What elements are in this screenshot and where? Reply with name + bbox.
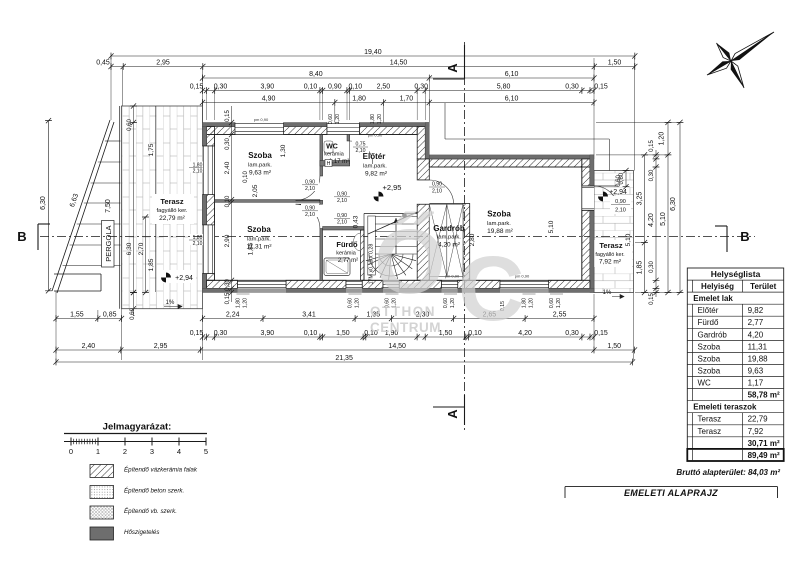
svg-text:1,80: 1,80 bbox=[352, 96, 366, 103]
svg-text:Szoba: Szoba bbox=[698, 354, 721, 363]
svg-text:0,30: 0,30 bbox=[414, 84, 428, 91]
svg-text:0,15: 0,15 bbox=[649, 293, 655, 305]
svg-text:0,30: 0,30 bbox=[225, 279, 231, 291]
svg-text:9,63: 9,63 bbox=[748, 367, 764, 376]
svg-text:1,80: 1,80 bbox=[236, 298, 242, 308]
svg-text:kerámia: kerámia bbox=[324, 152, 345, 158]
svg-text:lam.park.: lam.park. bbox=[487, 221, 511, 227]
svg-text:7,92 m²: 7,92 m² bbox=[599, 259, 622, 266]
svg-text:WC: WC bbox=[326, 144, 338, 151]
dim 6,30 left outer column bbox=[48, 121, 50, 291]
svg-text:19,88 m²: 19,88 m² bbox=[487, 228, 513, 235]
pergola base bbox=[54, 273, 101, 275]
dim row 2,24 3,41 1,35 2,30 2,65 2,55 bbox=[203, 318, 595, 320]
svg-text:1,20: 1,20 bbox=[450, 298, 456, 308]
pergola bbox=[52, 120, 110, 291]
svg-text:Szoba: Szoba bbox=[698, 367, 721, 376]
terrace interior dim lines bbox=[133, 106, 135, 292]
svg-text:CENTRUM: CENTRUM bbox=[370, 320, 441, 335]
extension lines from top dims bbox=[110, 58, 112, 120]
right dim column 6,30 bbox=[679, 122, 681, 292]
label Terasz 22,79 bbox=[152, 194, 194, 224]
svg-text:0,10: 0,10 bbox=[243, 171, 249, 183]
svg-text:3,25: 3,25 bbox=[637, 192, 644, 206]
svg-text:0,43: 0,43 bbox=[353, 215, 360, 228]
svg-text:0,15: 0,15 bbox=[225, 110, 231, 122]
stair treads bbox=[375, 216, 417, 218]
corridor wall x=320 bbox=[320, 135, 323, 177]
svg-text:2,55: 2,55 bbox=[553, 312, 567, 319]
svg-text:9,63 m²: 9,63 m² bbox=[249, 170, 272, 177]
svg-text:6,30: 6,30 bbox=[40, 196, 47, 210]
exterior wall top, left section bbox=[207, 127, 235, 135]
svg-text:2,10: 2,10 bbox=[615, 208, 626, 214]
svg-text:0,15: 0,15 bbox=[649, 140, 655, 152]
right dim extension lines bbox=[596, 121, 680, 123]
svg-text:1,80: 1,80 bbox=[370, 114, 376, 124]
room list table Helységlista bbox=[687, 268, 783, 461]
svg-text:B: B bbox=[17, 229, 26, 244]
window bottom wall 0,60 bbox=[346, 280, 362, 288]
svg-text:0,15: 0,15 bbox=[190, 84, 204, 91]
roof overhang outline bbox=[444, 103, 446, 139]
svg-text:2,24: 2,24 bbox=[226, 312, 240, 319]
svg-text:1,75: 1,75 bbox=[148, 143, 155, 156]
svg-text:1%: 1% bbox=[603, 290, 612, 296]
wardrobe X Gardrób bbox=[429, 204, 447, 276]
svg-text:5,10: 5,10 bbox=[660, 212, 667, 226]
svg-text:2,10: 2,10 bbox=[432, 189, 442, 195]
staircase bbox=[364, 213, 417, 215]
svg-text:6,10: 6,10 bbox=[505, 71, 519, 78]
svg-text:0,15: 0,15 bbox=[594, 84, 608, 91]
svg-text:Terület: Terület bbox=[750, 282, 776, 291]
svg-text:fagyálló ker.: fagyálló ker. bbox=[157, 208, 188, 214]
svg-text:22,79 m²: 22,79 m² bbox=[159, 215, 185, 222]
svg-text:1,20: 1,20 bbox=[529, 298, 535, 308]
svg-text:Szoba: Szoba bbox=[247, 225, 271, 234]
svg-text:19,40: 19,40 bbox=[364, 49, 382, 56]
svg-text:EMELETI ALAPRAJZ: EMELETI ALAPRAJZ bbox=[624, 488, 718, 498]
legend swatch vázkerámia bbox=[90, 465, 114, 478]
washbasin Fürdő bbox=[354, 233, 361, 251]
svg-text:pm 0,90: pm 0,90 bbox=[254, 117, 269, 122]
door labels 0,90/2,10 szoba doors bbox=[301, 178, 319, 191]
section line B-B bbox=[40, 236, 755, 238]
svg-text:0,10: 0,10 bbox=[304, 84, 318, 91]
svg-text:H: H bbox=[327, 161, 331, 167]
svg-text:+2,94: +2,94 bbox=[609, 189, 627, 196]
svg-text:2,10: 2,10 bbox=[193, 241, 203, 247]
right dim column 0,15 0,30 4,20 0,30 0,15 bbox=[655, 150, 657, 297]
svg-text:14,50: 14,50 bbox=[390, 60, 408, 67]
svg-text:Szoba: Szoba bbox=[248, 151, 272, 160]
svg-text:1,17: 1,17 bbox=[748, 379, 764, 388]
svg-text:0,30: 0,30 bbox=[565, 330, 579, 337]
svg-text:1%: 1% bbox=[166, 300, 175, 306]
svg-text:8,40: 8,40 bbox=[309, 71, 323, 78]
terrace Terasz 22,79 floor pattern bbox=[122, 106, 203, 309]
section mark A bottom bbox=[464, 395, 466, 425]
right dim column 1,20 5,10 bbox=[667, 122, 669, 292]
svg-text:0,30: 0,30 bbox=[225, 138, 231, 150]
svg-text:2,10: 2,10 bbox=[337, 220, 347, 226]
svg-text:0,10: 0,10 bbox=[304, 330, 318, 337]
svg-text:0,90: 0,90 bbox=[615, 199, 626, 205]
window left wall upper 1,80 bbox=[203, 146, 215, 195]
svg-text:6,30: 6,30 bbox=[670, 197, 677, 211]
Fürdő walls bbox=[323, 227, 364, 231]
exterior wall right bbox=[582, 167, 590, 186]
svg-text:Terasz: Terasz bbox=[599, 241, 622, 250]
svg-text:7,50: 7,50 bbox=[105, 199, 112, 213]
svg-text:0: 0 bbox=[69, 447, 73, 456]
svg-text:C: C bbox=[458, 238, 524, 340]
door step wall (Elotér to Szoba3) bbox=[417, 180, 429, 204]
svg-text:Helyiség: Helyiség bbox=[701, 282, 734, 291]
svg-text:0,30: 0,30 bbox=[214, 330, 228, 337]
svg-text:0,15: 0,15 bbox=[594, 330, 608, 337]
svg-text:PERGOLA: PERGOLA bbox=[104, 225, 113, 261]
bathtub Fürdő bbox=[324, 258, 350, 276]
svg-text:Ő: Ő bbox=[374, 211, 446, 313]
svg-text:0,60: 0,60 bbox=[549, 298, 555, 308]
section mark A top bbox=[464, 45, 466, 79]
step wall vertical bbox=[417, 127, 425, 159]
svg-text:kerámia: kerámia bbox=[336, 251, 357, 257]
partition Szoba1/Szoba2 0,10 bbox=[215, 200, 320, 203]
svg-text:A: A bbox=[445, 409, 460, 419]
svg-text:Előtér: Előtér bbox=[363, 152, 386, 161]
window left wall lower 1,80 bbox=[203, 225, 215, 274]
legend swatch hőszigetelés bbox=[90, 527, 114, 540]
svg-text:1,85: 1,85 bbox=[637, 261, 644, 275]
svg-text:Terasz: Terasz bbox=[160, 197, 183, 206]
svg-text:2,10: 2,10 bbox=[193, 169, 203, 175]
svg-text:+2,94: +2,94 bbox=[175, 275, 193, 282]
svg-text:0,10: 0,10 bbox=[225, 195, 231, 207]
svg-text:Hőszigetelés: Hőszigetelés bbox=[124, 529, 159, 536]
svg-text:pm 0,90: pm 0,90 bbox=[368, 133, 383, 138]
WC door label 0,75/2,10 bbox=[352, 140, 369, 153]
svg-text:4,20: 4,20 bbox=[648, 213, 655, 227]
svg-text:58,78 m²: 58,78 m² bbox=[748, 391, 780, 400]
svg-text:1,70: 1,70 bbox=[400, 96, 414, 103]
window bottom wall 0,60 bbox=[383, 280, 399, 288]
WC walls bbox=[347, 135, 350, 142]
svg-text:1,85: 1,85 bbox=[148, 258, 155, 271]
svg-text:2,77 m²: 2,77 m² bbox=[338, 258, 358, 264]
dim row 0,15 0,30 3,90 ... bbox=[203, 90, 595, 92]
svg-text:2,95: 2,95 bbox=[156, 60, 170, 67]
svg-text:2,70: 2,70 bbox=[138, 242, 145, 255]
svg-text:Szoba: Szoba bbox=[698, 342, 721, 351]
svg-text:9,82 m²: 9,82 m² bbox=[365, 171, 388, 178]
right dim column 0,60 door jamb bbox=[625, 171, 627, 187]
window bottom wall 1,80 bbox=[500, 280, 549, 288]
svg-text:1: 1 bbox=[96, 447, 100, 456]
terrace Terasz 7,92 floor pattern bbox=[594, 171, 634, 293]
svg-text:Építendő vázkerámia falak: Építendő vázkerámia falak bbox=[124, 467, 198, 474]
svg-text:1,20: 1,20 bbox=[355, 298, 361, 308]
svg-text:7,92: 7,92 bbox=[748, 427, 764, 436]
door opening right wall bbox=[582, 186, 594, 210]
dim row 2,40 2,95 14,50 1,50 bbox=[56, 349, 635, 351]
svg-text:3: 3 bbox=[150, 447, 154, 456]
Gardrób top wall bbox=[429, 203, 463, 205]
svg-text:fagyálló ker.: fagyálló ker. bbox=[595, 252, 625, 258]
dim row 0,15 0,30 3,90 0,10 1,50 ... bbox=[203, 336, 595, 338]
dim row 1,55 0,85 bbox=[56, 318, 122, 320]
insulation strip top bbox=[203, 123, 236, 127]
svg-text:lam.park.: lam.park. bbox=[247, 237, 271, 243]
svg-text:Emelet lak: Emelet lak bbox=[693, 294, 733, 303]
window bottom wall 0,60 bbox=[442, 280, 458, 288]
legend swatch beton bbox=[90, 486, 114, 499]
svg-text:0,30: 0,30 bbox=[565, 84, 579, 91]
pergola rungs bbox=[105, 140, 121, 142]
stair tread box 17M bbox=[368, 216, 376, 275]
svg-text:21,35: 21,35 bbox=[335, 355, 353, 362]
svg-text:5: 5 bbox=[204, 447, 208, 456]
svg-text:lam.park.: lam.park. bbox=[248, 163, 272, 169]
svg-text:Gardrób: Gardrób bbox=[698, 330, 728, 339]
svg-text:Fürdő: Fürdő bbox=[698, 318, 719, 327]
svg-text:Terasz: Terasz bbox=[698, 415, 722, 424]
svg-text:5,10: 5,10 bbox=[625, 233, 632, 246]
svg-text:2,10: 2,10 bbox=[305, 212, 315, 218]
svg-text:1,20: 1,20 bbox=[659, 132, 666, 146]
stair winder radials bbox=[391, 254, 416, 261]
exterior wall top, right section bbox=[429, 159, 582, 167]
svg-text:0,60: 0,60 bbox=[127, 119, 133, 131]
dim row 21,35 bbox=[56, 361, 633, 363]
svg-text:2,10: 2,10 bbox=[305, 186, 315, 192]
svg-text:5,10: 5,10 bbox=[548, 220, 555, 233]
interior dim chain left x=231 bbox=[231, 106, 233, 302]
svg-text:6,10: 6,10 bbox=[505, 96, 519, 103]
svg-text:11,31: 11,31 bbox=[748, 342, 768, 351]
dim row 0,45 2,95 14,50 1,50 bbox=[111, 66, 635, 68]
Gardrób right wall bbox=[463, 204, 470, 281]
svg-text:1,50: 1,50 bbox=[607, 343, 621, 350]
svg-text:Építendő beton szerk.: Építendő beton szerk. bbox=[124, 488, 184, 495]
svg-text:Bruttó alapterület: 84,03 m²: Bruttó alapterület: 84,03 m² bbox=[676, 468, 780, 477]
WC toilet bbox=[324, 141, 333, 153]
svg-text:2,10: 2,10 bbox=[337, 198, 347, 204]
svg-text:Emeleti teraszok: Emeleti teraszok bbox=[693, 403, 757, 412]
svg-text:2,40: 2,40 bbox=[82, 343, 96, 350]
title box EMELETI ALAPRAJZ bbox=[565, 486, 778, 488]
svg-text:3,90: 3,90 bbox=[260, 330, 274, 337]
svg-text:30,71 m²: 30,71 m² bbox=[748, 439, 780, 448]
WC door arc 0,75 bbox=[350, 141, 373, 164]
door Szoba1 with arc bbox=[296, 176, 320, 200]
svg-text:2,50: 2,50 bbox=[377, 84, 391, 91]
label Terasz 7,92 bbox=[592, 240, 632, 267]
watermark logo bbox=[370, 211, 524, 340]
svg-text:0,30: 0,30 bbox=[214, 84, 228, 91]
svg-text:6,30: 6,30 bbox=[126, 242, 133, 255]
svg-text:lam.park.: lam.park. bbox=[363, 164, 387, 170]
svg-text:0,30: 0,30 bbox=[649, 169, 655, 181]
svg-text:1,50: 1,50 bbox=[608, 60, 622, 67]
svg-text:0,15: 0,15 bbox=[190, 330, 204, 337]
legend scale bar bbox=[64, 441, 206, 443]
section mark B left bbox=[37, 224, 39, 250]
exterior wall left bbox=[207, 127, 215, 147]
dim row 4,90 1,80 1,70 6,10 bbox=[203, 102, 595, 104]
svg-text:9,82: 9,82 bbox=[748, 306, 764, 315]
svg-text:3,90: 3,90 bbox=[260, 84, 274, 91]
svg-text:OTTHON: OTTHON bbox=[370, 304, 436, 319]
svg-text:WC: WC bbox=[698, 379, 712, 388]
svg-text:B: B bbox=[740, 229, 749, 244]
svg-text:0,90: 0,90 bbox=[432, 182, 442, 188]
svg-text:14,50: 14,50 bbox=[388, 343, 406, 350]
door Szoba2 with arc bbox=[296, 204, 320, 228]
svg-text:Terasz: Terasz bbox=[698, 427, 722, 436]
stair winder arcs bbox=[379, 254, 403, 266]
svg-text:0,60: 0,60 bbox=[348, 298, 354, 308]
right dim column 3,25 1,85 bbox=[644, 155, 646, 293]
svg-text:2,95: 2,95 bbox=[154, 343, 168, 350]
svg-text:0,30: 0,30 bbox=[649, 261, 655, 273]
svg-text:19,88: 19,88 bbox=[748, 354, 769, 363]
door label 0,90/2,10 right bbox=[610, 196, 631, 214]
svg-text:2,40: 2,40 bbox=[224, 161, 231, 174]
svg-text:1,50: 1,50 bbox=[336, 330, 350, 337]
svg-text:+2,95: +2,95 bbox=[383, 183, 402, 192]
svg-text:Építendő vb. szerk.: Építendő vb. szerk. bbox=[124, 508, 177, 515]
svg-text:0,10: 0,10 bbox=[348, 84, 362, 91]
window in top wall (Szoba 9,63) bbox=[235, 123, 284, 135]
north arrow star bbox=[731, 32, 774, 61]
svg-text:0,45: 0,45 bbox=[96, 60, 110, 67]
svg-text:2,05: 2,05 bbox=[252, 184, 259, 197]
svg-text:0,60: 0,60 bbox=[619, 172, 625, 184]
H mark WC bbox=[325, 160, 332, 167]
svg-text:4,90: 4,90 bbox=[262, 96, 276, 103]
svg-text:5,80: 5,80 bbox=[497, 84, 511, 91]
svg-text:Előtér: Előtér bbox=[698, 306, 719, 315]
svg-text:2,90: 2,90 bbox=[224, 234, 231, 247]
svg-text:1,20: 1,20 bbox=[243, 298, 249, 308]
svg-text:4: 4 bbox=[177, 447, 181, 456]
svg-text:0,85: 0,85 bbox=[103, 312, 117, 319]
svg-text:Szoba: Szoba bbox=[487, 210, 511, 219]
stair break line bbox=[368, 212, 417, 234]
svg-text:2: 2 bbox=[123, 447, 127, 456]
svg-text:Jelmagyarázat:: Jelmagyarázat: bbox=[103, 422, 172, 433]
svg-text:1,20: 1,20 bbox=[335, 114, 341, 124]
exterior wall bottom bbox=[207, 280, 238, 288]
extension lines to bottom dims bbox=[55, 291, 57, 360]
svg-text:89,49 m²: 89,49 m² bbox=[748, 451, 780, 460]
svg-text:0,15: 0,15 bbox=[225, 292, 231, 304]
legend swatch vb bbox=[90, 506, 114, 519]
insulation strip bottom bbox=[203, 288, 595, 292]
window labels on left wall 1,80/2,10 bbox=[188, 162, 207, 173]
svg-text:1,20: 1,20 bbox=[556, 298, 562, 308]
section mark B right bbox=[726, 226, 728, 252]
level mark +2,94 left terrace bbox=[158, 270, 196, 283]
svg-text:1,85: 1,85 bbox=[248, 242, 255, 255]
svg-text:4,20: 4,20 bbox=[748, 330, 764, 339]
svg-text:Fürdő: Fürdő bbox=[336, 240, 358, 249]
svg-text:3,41: 3,41 bbox=[302, 312, 316, 319]
svg-text:22,79: 22,79 bbox=[748, 415, 769, 424]
svg-text:0,90: 0,90 bbox=[328, 84, 342, 91]
section line A-A bbox=[464, 42, 466, 430]
window in top wall (WC/Elotér) bbox=[327, 123, 359, 135]
svg-text:1,30: 1,30 bbox=[280, 144, 287, 157]
pinwheel symbol left terrace bbox=[161, 273, 171, 283]
dim row 19,40 bbox=[111, 55, 635, 57]
stair walking line with arrow bbox=[395, 218, 397, 254]
dim row 8,40 6,10 bbox=[203, 77, 595, 79]
window bottom wall 1,80 bbox=[238, 280, 287, 288]
label PERGOLA bbox=[102, 221, 115, 268]
svg-text:0,60: 0,60 bbox=[328, 114, 334, 124]
door arc to right terrace 0,90 bbox=[594, 186, 618, 210]
svg-text:A: A bbox=[445, 63, 460, 73]
svg-text:0,75: 0,75 bbox=[355, 142, 365, 148]
svg-text:2,77: 2,77 bbox=[748, 318, 764, 327]
svg-text:1,55: 1,55 bbox=[70, 312, 84, 319]
svg-text:Helységlista: Helységlista bbox=[711, 269, 761, 279]
svg-text:1,20: 1,20 bbox=[377, 114, 383, 124]
